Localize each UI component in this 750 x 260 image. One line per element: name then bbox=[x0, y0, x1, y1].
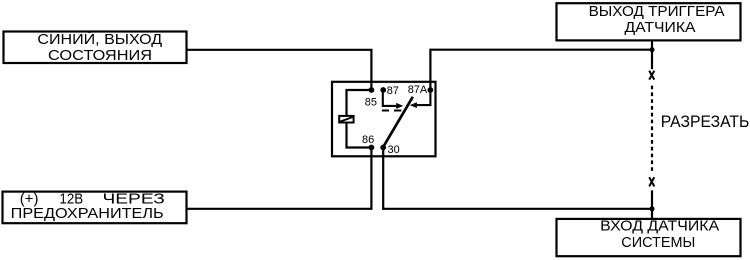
svg-text:86: 86 bbox=[362, 134, 374, 146]
cut mark lower X bbox=[649, 177, 654, 186]
relay K1 body bbox=[332, 82, 436, 157]
label: РАЗРЕЗАТЬ bbox=[661, 112, 750, 131]
svg-text:ВЫХОД ТРИГГЕРА: ВЫХОД ТРИГГЕРА bbox=[589, 3, 725, 20]
svg-text:СИСТЕМЫ: СИСТЕМЫ bbox=[621, 234, 695, 251]
relay coil wiring: pin 85 to coil to pin 86 bbox=[347, 90, 372, 148]
wire: trigger box down to junction bbox=[651, 41, 653, 50]
svg-text:87: 87 bbox=[387, 85, 399, 97]
pin 87 with normally-open contact arrow bbox=[380, 85, 403, 109]
box: +12V through fuse ((+) 12В ЧЕРЕЗ ПРЕДОХРАНИТЕЛЬ) bbox=[3, 190, 187, 223]
pin 86 bbox=[362, 134, 374, 150]
svg-text:87A: 87A bbox=[408, 84, 428, 96]
svg-text:СИНИЙ, ВЫХОД: СИНИЙ, ВЫХОД bbox=[37, 30, 162, 48]
svg-text:ВХОД ДАТЧИКА: ВХОД ДАТЧИКА bbox=[600, 218, 719, 235]
pin 87A with normally-closed contact arrow bbox=[408, 84, 434, 108]
wire: junction to relay pin 87A bbox=[430, 50, 652, 90]
svg-text:РАЗРЕЗАТЬ: РАЗРЕЗАТЬ bbox=[661, 112, 750, 131]
svg-text:СОСТОЯНИЯ: СОСТОЯНИЯ bbox=[48, 47, 152, 64]
wire: fuse box to relay pin 86 bbox=[187, 148, 371, 209]
wire: status box to relay pin 85 bbox=[187, 50, 371, 90]
dashed mark under 87 contact bbox=[382, 110, 401, 112]
wire: relay pin 30 to lower junction bbox=[383, 148, 652, 209]
pin 85 bbox=[365, 87, 377, 108]
pin 30 with switch arm to 87A bbox=[380, 97, 412, 156]
wire: cut line lower solid segment into sensor input box bbox=[651, 190, 653, 218]
box: sensor trigger output (ВЫХОД ТРИГГЕРА ДАТЧИКА) bbox=[557, 3, 741, 40]
svg-text:85: 85 bbox=[365, 96, 377, 108]
svg-text:ПРЕДОХРАНИТЕЛЬ: ПРЕДОХРАНИТЕЛЬ bbox=[11, 205, 164, 222]
box: status output (СИНИЙ, ВЫХОД СОСТОЯНИЯ) bbox=[4, 30, 187, 64]
junction dot upper bbox=[650, 47, 655, 52]
cut mark upper X bbox=[649, 71, 654, 80]
relay coil (fuse-style rectangle with diagonal) bbox=[339, 116, 353, 123]
wire: dashed cut segment bbox=[651, 86, 653, 174]
junction dot lower bbox=[650, 206, 655, 211]
svg-text:ДАТЧИКА: ДАТЧИКА bbox=[625, 19, 696, 36]
box: system sensor input (ВХОД ДАТЧИКА СИСТЕМЫ) bbox=[557, 218, 741, 257]
svg-text:30: 30 bbox=[388, 144, 400, 156]
wire: cut line upper solid segment bbox=[651, 50, 653, 69]
